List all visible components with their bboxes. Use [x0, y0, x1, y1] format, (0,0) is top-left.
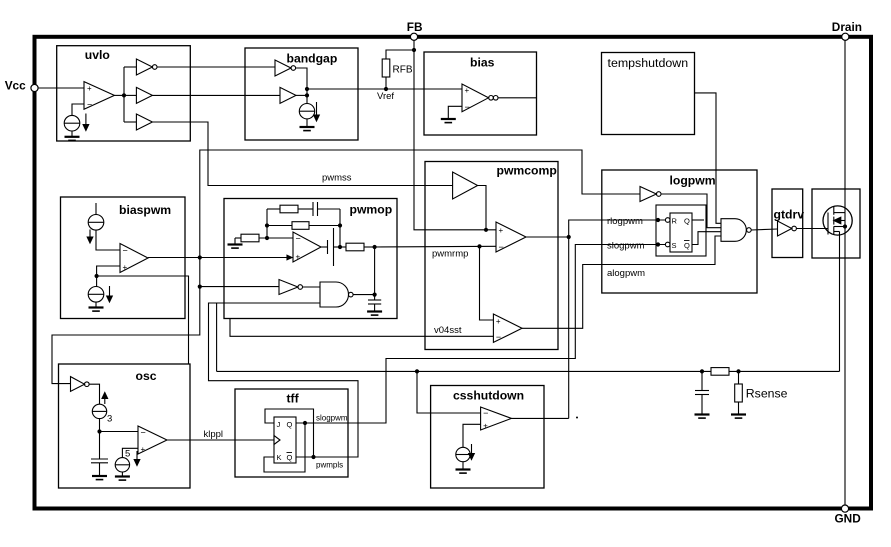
uvlo block box	[57, 46, 191, 141]
wire pwmcomp buffer output down to plus node	[478, 186, 486, 230]
svg-text:Drain: Drain	[832, 20, 862, 34]
svg-text:bandgap: bandgap	[287, 51, 338, 65]
wire csshutdown plus to current source	[463, 424, 481, 447]
wire tff J feedback loop top	[265, 409, 314, 457]
svg-text:+: +	[87, 84, 92, 93]
op-amp bias comparator	[462, 84, 498, 112]
labels part 2	[119, 163, 557, 336]
ground bandgap	[300, 119, 315, 131]
node pwmop output	[373, 245, 377, 249]
wire MOSFET source to GND pin	[844, 227, 846, 505]
node stray dot	[576, 417, 578, 419]
current source osc charge 3	[92, 404, 106, 418]
node rlogpwm dot at latch	[656, 218, 660, 222]
nand gate logpwm	[721, 219, 751, 242]
svg-text:Vcc: Vcc	[5, 79, 26, 93]
node bandgap junction lower	[305, 93, 309, 97]
inverter pwmop	[279, 280, 303, 295]
svg-text:−: −	[87, 100, 92, 110]
wire buffer2 output to bandgap buffer	[152, 94, 280, 96]
wire pwmop feedback left vertical	[266, 209, 268, 238]
svg-text:FB: FB	[407, 20, 423, 34]
wire gtdrv output to gate	[796, 228, 828, 230]
wire buffer1 output to bandgap inverter	[157, 66, 275, 68]
wire pwmop feedback right vertical	[339, 209, 341, 247]
wire latch Q output stub	[692, 219, 704, 221]
svg-text:v04sst: v04sst	[434, 325, 462, 336]
bias block box	[424, 52, 537, 135]
wire MOSFET sense line down to rsense	[839, 232, 841, 372]
wire logpwm inverter output to nand	[661, 194, 721, 228]
svg-text:+: +	[496, 317, 501, 326]
svg-text:Q: Q	[287, 453, 293, 462]
gtdrv block box	[772, 189, 803, 258]
wire Vcc to uvlo comparator	[38, 87, 84, 89]
node rsense junction	[736, 369, 740, 373]
node Vref junction	[384, 87, 388, 91]
wire pwmpls net: from tff qbar up and to pwmop nand input2	[209, 303, 359, 457]
current source biaspwm lower	[88, 286, 112, 302]
node FB junction	[412, 48, 416, 52]
wire csshutdown output	[511, 417, 568, 419]
svg-text:−: −	[483, 408, 488, 418]
tempshutdown block box	[602, 53, 695, 135]
svg-text:+: +	[123, 263, 128, 272]
svg-text:5: 5	[125, 449, 130, 460]
svg-text:slogpwm: slogpwm	[607, 241, 645, 252]
wire osc node to comparator minus	[100, 431, 139, 433]
svg-text:R: R	[672, 217, 678, 226]
wire bus to buffer1	[124, 66, 136, 68]
wire klppl osc output to tff clock	[167, 439, 274, 441]
pwmcomp block box	[425, 162, 558, 350]
node tff Qbar junction	[311, 455, 315, 459]
op-amp osc comparator	[138, 426, 167, 454]
svg-text:RFB: RFB	[393, 65, 413, 76]
csshutdown block box	[431, 386, 544, 489]
svg-text:+: +	[141, 445, 146, 454]
svg-text:−: −	[465, 102, 470, 112]
resistor pwmop output	[346, 243, 375, 251]
svg-text:Rsense: Rsense	[746, 386, 788, 400]
node uvlo bus junction	[122, 93, 126, 97]
svg-text:bias: bias	[470, 56, 495, 70]
svg-text:biaspwm: biaspwm	[119, 203, 171, 217]
svg-text:rlogpwm: rlogpwm	[607, 216, 643, 227]
flip-flop tff JK	[274, 417, 296, 463]
op-amp pwmop	[293, 232, 321, 262]
osc block box	[59, 364, 191, 488]
wire bandgap node to current source	[306, 95, 308, 103]
wire pwmop nand output to node	[353, 294, 375, 296]
pin R input bubble	[665, 218, 670, 223]
svg-text:osc: osc	[136, 369, 157, 383]
ground uvlo	[65, 131, 80, 140]
svg-text:+: +	[296, 253, 301, 262]
svg-text:+: +	[499, 226, 504, 235]
wire Vref line from bandgap to bias	[307, 88, 462, 90]
ground csshutdown	[456, 462, 471, 473]
svg-text:S: S	[672, 241, 677, 250]
node Vcc pin	[31, 84, 38, 91]
ground osc cs5	[115, 472, 130, 480]
current source bandgap	[299, 102, 319, 121]
buffer bandgap lower	[280, 87, 296, 103]
node osc junction	[97, 429, 101, 433]
resistor pwmop feedback R1	[267, 205, 313, 213]
mosfet block box	[812, 189, 860, 258]
node slogpwm dot at latch	[656, 242, 660, 246]
pin tff clock triangle	[274, 436, 280, 445]
wire osc inverter output down to current source	[89, 384, 99, 404]
node FB pin	[410, 33, 417, 40]
svg-text:3: 3	[107, 414, 112, 425]
arrow osc up	[102, 393, 108, 405]
svg-text:−: −	[141, 428, 146, 438]
inner box logpwm latch	[656, 205, 706, 256]
wire pwmcomp middle output to rlogpwm node	[526, 236, 569, 238]
wire slogpwm: tff Q to logpwm S input	[296, 245, 666, 424]
node GND pin	[841, 505, 848, 512]
wire sense tap to csshutdown minus	[417, 371, 481, 413]
wire sense drop to rsense line	[216, 303, 218, 371]
node rlogpwm junction	[567, 235, 571, 239]
wire buffer3 output to pwmss line	[152, 122, 452, 186]
ground Rsense	[731, 415, 746, 419]
wire bus to buffer3	[124, 121, 136, 123]
svg-text:K: K	[277, 453, 282, 462]
resistor pwmop input	[235, 234, 293, 242]
capacitor pwmop feedback C1	[313, 202, 340, 216]
capacitor pwmop series	[321, 228, 346, 266]
wire biaspwm plus node to right	[97, 276, 189, 364]
svg-text:Q: Q	[684, 241, 690, 250]
bandgap block box	[245, 48, 358, 140]
svg-text:Vref: Vref	[377, 91, 394, 102]
current source uvlo	[64, 114, 89, 132]
svg-text:uvlo: uvlo	[85, 48, 110, 62]
svg-text:pwmss: pwmss	[322, 173, 352, 184]
labels part 3	[107, 174, 804, 470]
current source osc discharge 5	[115, 451, 140, 472]
wire latch Qbar output to nand input3	[692, 232, 721, 245]
wire osc comparator plus to current source 5	[122, 448, 138, 457]
node csshutdown sense tap	[415, 369, 419, 373]
transistor power MOSFET	[823, 206, 852, 235]
node bandgap junction upper	[305, 87, 309, 91]
wire pwmop inverter to nand	[303, 286, 321, 288]
ground biaspwm	[89, 302, 104, 311]
wire bias output stub	[498, 97, 537, 99]
svg-text:−: −	[499, 242, 504, 252]
node junction enable bus and biaspwm output	[198, 255, 202, 259]
wire alogpwm: lower comparator output to logpwm	[522, 236, 721, 328]
op-amp pwmcomp middle comparator	[496, 222, 526, 252]
op-amp csshutdown comparator	[481, 407, 512, 431]
logpwm block box	[602, 170, 757, 293]
flip-flop logpwm RS latch	[670, 213, 692, 252]
node pwmop fb junctions	[265, 223, 269, 227]
svg-text:gtdrv: gtdrv	[774, 207, 805, 221]
capacitor pwmop output to ground	[368, 300, 381, 312]
node tff Q junction	[303, 421, 307, 425]
pwmop block box	[224, 199, 397, 319]
node Drain pin	[842, 33, 849, 40]
svg-text:+: +	[465, 86, 470, 95]
ground osc cap	[92, 476, 107, 480]
wire biaspwm output to pwmop plus input	[148, 257, 287, 259]
svg-text:GND: GND	[835, 511, 862, 525]
capacitor filter	[695, 371, 709, 414]
wire rsense horizontal line	[217, 370, 711, 372]
node biaspwm plus junction	[95, 274, 99, 278]
biaspwm block box	[61, 197, 186, 319]
svg-text:pwmcomp: pwmcomp	[497, 163, 557, 177]
wire uvlo comparator minus to current source	[72, 104, 84, 115]
node junction enable bus and pwmop inverter input	[198, 285, 202, 289]
wire biaspwm cs to opamp minus	[96, 230, 120, 250]
nand gate pwmop	[320, 282, 353, 307]
node filter cap junction	[700, 369, 704, 373]
svg-text:−: −	[123, 246, 128, 256]
inverter osc	[71, 377, 90, 392]
wire bandgap inverter output down to Vref node	[296, 68, 307, 95]
wire enable bus: logpwm inverter input, down left side to osc inverter	[52, 150, 640, 384]
wire pwmrmp down to lower comparator plus	[480, 246, 494, 320]
svg-text:tff: tff	[287, 391, 300, 405]
svg-text:Q: Q	[684, 217, 690, 226]
wire pwmrmp: pwmop output to pwmcomp	[375, 245, 496, 248]
node pwmcomp plus junction	[484, 228, 488, 232]
tff block box	[235, 389, 348, 477]
wire FB vertical down to pwmcomp plus input	[414, 40, 496, 229]
wire bias comparator minus to ground	[448, 106, 462, 119]
wire Drain down to MOSFET	[844, 40, 846, 212]
inverter bandgap top	[275, 60, 296, 76]
svg-text:−: −	[296, 234, 301, 244]
capacitor osc	[91, 459, 108, 476]
current source csshutdown	[456, 444, 475, 462]
svg-text:pwmrmp: pwmrmp	[432, 249, 468, 260]
wire osc cap node	[99, 419, 101, 459]
svg-text:slogpwm: slogpwm	[316, 414, 348, 423]
inverter logpwm	[640, 187, 661, 202]
resistor series filter	[711, 368, 729, 376]
wire v04sst line	[230, 319, 493, 337]
wire bus to buffer2	[124, 94, 136, 96]
ground pwmop input	[228, 238, 243, 248]
svg-text:csshutdown: csshutdown	[453, 388, 524, 402]
ground bias	[441, 119, 456, 123]
wire tempshutdown output to logpwm nand	[695, 93, 722, 223]
resistor pwmop feedback R2	[267, 222, 340, 230]
op-amp uvlo comparator	[84, 82, 114, 110]
svg-text:+: +	[483, 422, 488, 431]
wire biaspwm plus input	[97, 266, 120, 287]
wire pwmop output node down to nand output	[374, 247, 376, 300]
svg-text:klppl: klppl	[204, 429, 224, 440]
buffer uvlo buffer2	[136, 87, 152, 103]
wire uvlo comparator output to buffer bus	[114, 94, 124, 96]
inverter uvlo buffer1	[136, 59, 157, 75]
wire bandgap buffer output	[296, 94, 307, 96]
ground filter cap	[695, 415, 710, 419]
op-amp pwmcomp lower comparator	[493, 314, 522, 342]
svg-text:pwmpls: pwmpls	[316, 461, 343, 470]
wire rlogpwm to logpwm R input	[569, 220, 666, 237]
wire pwmop inverter input	[200, 286, 279, 288]
wire rlogpwm node down to csshutdown output	[568, 237, 570, 418]
buffer uvlo buffer3	[136, 114, 152, 130]
svg-text:−: −	[496, 332, 501, 342]
svg-text:logpwm: logpwm	[670, 174, 716, 188]
svg-text:tempshutdown: tempshutdown	[608, 56, 689, 70]
svg-text:pwmop: pwmop	[350, 202, 393, 216]
buffer pwmcomp top	[453, 172, 478, 199]
ground pwmop output cap	[367, 312, 382, 316]
resistor Rsense	[735, 371, 743, 414]
op-amp biaspwm	[120, 244, 148, 273]
current source biaspwm upper	[87, 203, 104, 243]
svg-text:alogpwm: alogpwm	[607, 268, 645, 279]
wire uvlo buffer bus vertical	[123, 67, 125, 122]
svg-text:J: J	[277, 420, 281, 429]
svg-text:Q: Q	[287, 420, 293, 429]
inverter gtdrv	[778, 221, 797, 236]
pin S input bubble	[665, 242, 670, 247]
resistor RFB	[382, 50, 414, 89]
wire tff K feedback loop bottom	[264, 423, 305, 472]
node pwmrmp junction	[477, 244, 481, 248]
wire nand output to gtdrv	[751, 229, 777, 230]
